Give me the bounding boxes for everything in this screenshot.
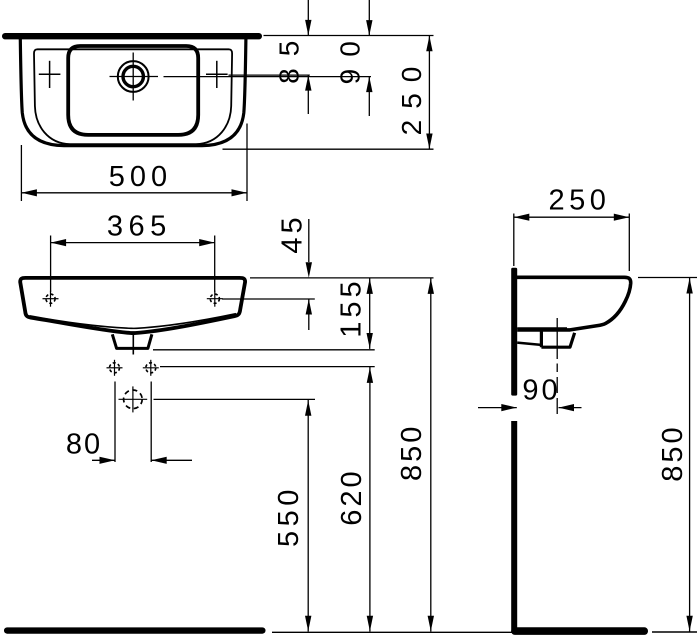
floor bar (side) [511,627,648,635]
basin outer outline (plan) [20,39,246,146]
svg-text:80: 80 [66,429,102,461]
extension line drain level [164,76,372,78]
svg-text:250: 250 [549,185,611,217]
svg-text:85: 85 [274,29,305,84]
basin front inner bottom line [30,314,237,329]
wall bar (plan, back edge) [2,33,262,39]
fixing hole bottom left [107,360,123,376]
dimension 620 [336,367,373,632]
dimension 365 [51,211,215,292]
mounting hole left [43,291,59,307]
floor bar (front) [4,627,266,633]
basin rim inner line (plan) [34,49,232,144]
waste hole (big, dashed) [119,386,148,412]
svg-text:850: 850 [396,424,428,481]
drain spigot (front) [112,334,152,348]
dimension 80 [66,382,192,464]
tap hole cross right [206,61,228,88]
dimension 850 (side) [657,278,693,632]
basin profile (side) [517,277,631,330]
mounting hole right [207,291,223,307]
drain trap shelf (side) [517,343,541,345]
svg-text:500: 500 [109,161,172,193]
svg-text:550: 550 [273,485,305,547]
dimension 250 (side) [514,185,630,272]
basin underside inner line (side) [517,327,567,329]
dimension 850 (front) [396,278,434,632]
extension line basin bottom (plan) [223,148,434,150]
spigot centre line [132,334,134,355]
floor extension line (front) [272,631,512,633]
extension line tap-hole level [229,74,310,76]
basin outline (front) [20,278,245,333]
wall bar lower (side) [511,421,517,633]
dimension 250 (plan depth) [396,36,433,150]
drain crosshair horizontal [110,76,159,78]
bowl outline (plan) [68,46,198,135]
extension line mounting holes [222,298,315,300]
tap hole cross left [39,61,61,88]
svg-text:250: 250 [396,56,427,136]
dimension 155 [335,277,373,349]
dimension 90 (side) [478,375,582,412]
dimension 85 [274,0,312,114]
extension line basin top (side, to 850) [638,277,697,279]
svg-text:620: 620 [336,468,368,525]
wall bar upper (side) [511,268,517,396]
drain inner circle [123,66,143,86]
svg-text:90: 90 [522,375,560,407]
drain trap bottom (side) [541,332,574,348]
extension line floor (side, to 850) [652,631,697,633]
svg-text:365: 365 [107,211,172,243]
dimension 500 [21,124,247,202]
svg-text:155: 155 [335,277,367,337]
dimension 550 [273,400,312,632]
extension line spigot bottom [153,349,375,351]
dimension 90 (plan) [335,0,373,116]
drain outer circle [118,61,149,92]
extension line back edge [264,35,434,37]
extension line basin top (front) [250,277,434,279]
svg-text:850: 850 [657,424,689,481]
drain crosshair vertical [132,53,134,101]
drain centre line (side) [556,318,558,414]
extension line waste hole [154,398,316,400]
extension line fixing holes [160,366,375,368]
dimension 45 [277,213,312,330]
fixing hole bottom right [143,360,159,376]
svg-text:45: 45 [277,213,309,253]
svg-text:90: 90 [335,29,366,84]
